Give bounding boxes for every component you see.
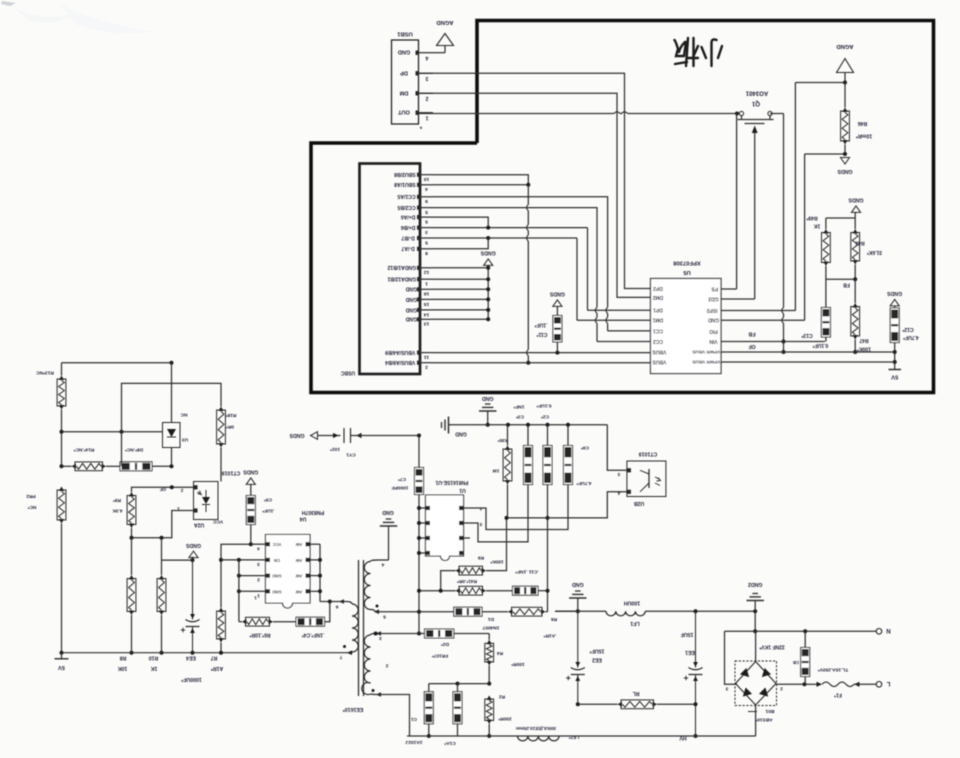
svg-text:4: 4 xyxy=(425,54,428,60)
svg-text:EE1: EE1 xyxy=(685,649,695,655)
label 小板 (small board) xyxy=(675,38,723,66)
resistor R7 A1R xyxy=(218,608,223,613)
svg-text:CT1019: CT1019 xyxy=(222,470,241,476)
svg-text:GNDS: GNDS xyxy=(887,290,903,296)
wire CC1 xyxy=(433,197,608,307)
svg-text:1M: 1M xyxy=(493,468,500,474)
wire CC2 xyxy=(433,208,597,308)
svg-text:5V: 5V xyxy=(58,664,65,670)
svg-text:R18*: R18* xyxy=(226,412,237,418)
svg-text:U4: U4 xyxy=(300,516,307,522)
capacitor C7 1000PF xyxy=(418,436,420,468)
svg-text:XPF07308: XPF07308 xyxy=(673,259,701,265)
svg-text:F1*: F1* xyxy=(834,691,842,697)
svg-text:AW: AW xyxy=(296,589,303,594)
svg-text:10mR*: 10mR* xyxy=(855,133,872,139)
svg-text:D+/B6: D+/B6 xyxy=(401,224,416,230)
svg-text:EE2: EE2 xyxy=(592,657,602,663)
svg-text:AW: AW xyxy=(296,542,303,547)
svg-text:31.6K*: 31.6K* xyxy=(867,249,882,255)
resistor R10 1K xyxy=(161,538,163,575)
svg-text:8: 8 xyxy=(425,250,428,256)
svg-text:NC*: NC* xyxy=(27,504,36,510)
capacitor C1A xyxy=(457,684,459,692)
svg-text:R35*: R35* xyxy=(498,437,509,443)
svg-text:PIO: PIO xyxy=(709,328,718,334)
svg-text:VBUS: VBUS xyxy=(652,358,667,364)
svg-text:U1: U1 xyxy=(459,487,466,493)
svg-text:VPWR VBUS: VPWR VBUS xyxy=(692,360,720,365)
svg-text:9: 9 xyxy=(425,198,428,204)
svg-text:GNDS: GNDS xyxy=(480,250,496,256)
svg-text:GNDS: GNDS xyxy=(185,542,201,548)
svg-text:CC1/A5: CC1/A5 xyxy=(397,193,415,199)
bridge B01 ABS10 xyxy=(725,631,738,684)
svg-text:OF: OF xyxy=(748,343,755,349)
wire U5 ISP2 row to AGND node xyxy=(721,310,796,312)
wire upper loop xyxy=(122,383,222,466)
svg-text:13: 13 xyxy=(424,321,430,327)
svg-text:L: L xyxy=(886,680,890,686)
svg-text:FR107*: FR107* xyxy=(432,653,448,659)
svg-text:C9*: C9* xyxy=(581,445,589,451)
svg-text:OF: OF xyxy=(160,487,167,492)
svg-text:R6: R6 xyxy=(551,616,557,622)
svg-text:4.3K: 4.3K xyxy=(112,508,123,514)
svg-text:R9: R9 xyxy=(478,555,484,561)
wire DP net xyxy=(419,73,651,288)
svg-text:D-/B7: D-/B7 xyxy=(401,234,414,240)
svg-text:10: 10 xyxy=(424,176,430,182)
resistor R18 0R xyxy=(218,407,223,412)
svg-text:R48: R48 xyxy=(855,239,864,245)
svg-text:1NF*: 1NF* xyxy=(513,404,524,410)
svg-text:CC2/B5: CC2/B5 xyxy=(397,204,415,210)
svg-text:CY1: CY1 xyxy=(346,452,356,458)
svg-text:LF1: LF1 xyxy=(630,620,639,626)
svg-text:C11*: C11* xyxy=(537,331,548,337)
svg-text:C5*: C5* xyxy=(264,497,272,503)
svg-text:VBUS: VBUS xyxy=(652,348,667,354)
transformer secondary winding (pins 4,5) xyxy=(364,562,370,610)
svg-text:R49*: R49* xyxy=(806,214,817,220)
svg-text:6: 6 xyxy=(335,604,338,610)
ground GND (transformer pin4) xyxy=(388,526,390,560)
svg-text:FB: FB xyxy=(748,331,755,337)
svg-text:AGND: AGND xyxy=(836,43,853,49)
svg-text:GND: GND xyxy=(398,49,410,55)
svg-text:GND: GND xyxy=(708,317,720,323)
svg-text:VCC: VCC xyxy=(212,519,223,525)
svg-text:4.7UF*: 4.7UF* xyxy=(576,480,591,486)
svg-text:C3*: C3* xyxy=(516,414,524,420)
svg-text:VCC: VCC xyxy=(273,542,282,547)
resistor R48 31.6K xyxy=(853,229,858,234)
svg-text:R41*.0R*: R41*.0R* xyxy=(457,578,477,584)
svg-text:7: 7 xyxy=(339,654,342,660)
svg-text:200R*: 200R* xyxy=(498,716,511,722)
svg-text:GD2: GD2 xyxy=(708,295,719,301)
power 5V (frame) xyxy=(894,362,896,370)
svg-text:VPWR VBUS: VPWR VBUS xyxy=(692,350,720,355)
svg-text:0R*: 0R* xyxy=(226,424,234,430)
svg-text:GNDA12/B1: GNDA12/B1 xyxy=(387,276,416,282)
svg-text:R10: R10 xyxy=(149,655,159,661)
svg-text:PN8307H: PN8307H xyxy=(302,509,325,515)
IC U3 (NC) xyxy=(171,363,173,423)
svg-text:10K: 10K xyxy=(117,665,127,671)
svg-text:C13*: C13* xyxy=(801,332,812,338)
svg-text:R4: R4 xyxy=(497,650,503,656)
svg-text:11: 11 xyxy=(424,354,429,360)
wire U4 right rail xyxy=(310,543,320,545)
svg-text:RL: RL xyxy=(632,690,640,696)
svg-text:3: 3 xyxy=(617,471,620,477)
svg-text:14: 14 xyxy=(424,311,430,317)
connector USB1 xyxy=(392,40,419,124)
wire VPWR bus rows xyxy=(721,351,895,353)
svg-text:D-/A7: D-/A7 xyxy=(401,245,414,251)
svg-text:4.7UF*: 4.7UF* xyxy=(903,334,919,340)
svg-text:R47: R47 xyxy=(859,337,868,343)
resistor R6 10R xyxy=(242,619,247,624)
resistor R4 100R xyxy=(488,634,490,640)
svg-text:A1R*: A1R* xyxy=(210,665,223,671)
svg-text:5: 5 xyxy=(383,614,386,620)
wire L line xyxy=(776,683,805,685)
svg-text:EE1610*: EE1610* xyxy=(342,706,363,712)
wire GND bus xyxy=(488,424,608,426)
svg-text:U2A: U2A xyxy=(194,522,205,528)
wire HV bus xyxy=(407,735,756,737)
svg-text:1N4007: 1N4007 xyxy=(482,625,499,631)
svg-text:4: 4 xyxy=(381,562,384,568)
svg-text:DP2: DP2 xyxy=(653,285,663,291)
svg-text:0.1UF*: 0.1UF* xyxy=(813,342,829,348)
svg-text:4: 4 xyxy=(617,490,620,496)
svg-text:5: 5 xyxy=(425,239,428,245)
svg-text:15: 15 xyxy=(424,301,430,307)
power 5V (output bus) xyxy=(62,652,353,654)
svg-text:2: 2 xyxy=(780,686,783,692)
svg-text:CC1: CC1 xyxy=(653,327,663,333)
resistor R47 100K xyxy=(854,279,856,303)
wire top-left net xyxy=(62,362,172,364)
svg-text:N: N xyxy=(886,627,890,633)
svg-text:U3: U3 xyxy=(182,437,188,443)
svg-text:GNDS: GNDS xyxy=(837,168,853,174)
wire U4 left rail xyxy=(221,559,266,561)
svg-text:GND: GND xyxy=(482,395,494,401)
wire DM net xyxy=(419,93,651,297)
svg-text:2: 2 xyxy=(425,95,428,101)
svg-text:GND: GND xyxy=(572,581,584,587)
svg-text:AW: AW xyxy=(296,558,303,563)
svg-text:1: 1 xyxy=(425,281,428,287)
svg-text:R2: R2 xyxy=(499,694,505,700)
svg-text:2: 2 xyxy=(425,364,428,370)
svg-text:1K: 1K xyxy=(813,222,820,228)
ground AGND (USB1) xyxy=(433,52,445,54)
resistor R2 200R xyxy=(487,696,492,701)
svg-text:0.1UF*: 0.1UF* xyxy=(536,403,551,409)
svg-text:100UH: 100UH xyxy=(624,600,640,606)
svg-text:NC: NC xyxy=(180,412,187,418)
svg-text:R14*.NC*: R14*.NC* xyxy=(73,447,94,453)
transformer aux winding (pins 3,2,1) xyxy=(362,635,371,695)
svg-text:OUT: OUT xyxy=(398,109,410,115)
wire U5 PS row to OUT xyxy=(721,288,737,290)
svg-text:FB: FB xyxy=(843,281,850,287)
ground GNDS (below R46) xyxy=(841,158,850,165)
svg-text:DP1: DP1 xyxy=(653,307,663,313)
svg-text:1000UF*: 1000UF* xyxy=(180,676,201,682)
svg-text:16: 16 xyxy=(424,291,430,297)
svg-text:AO3401: AO3401 xyxy=(745,90,768,96)
svg-text:SBU2/B8: SBU2/B8 xyxy=(394,171,416,177)
svg-text:ABS10*: ABS10* xyxy=(755,717,772,723)
svg-text:5V: 5V xyxy=(891,373,898,379)
svg-text:1K: 1K xyxy=(150,665,157,671)
svg-text:3: 3 xyxy=(379,635,382,641)
svg-text:GND: GND xyxy=(405,296,417,302)
svg-text:VBUS/A4/B9: VBUS/A4/B9 xyxy=(385,349,415,355)
svg-text:2A102J: 2A102J xyxy=(405,739,422,745)
svg-text:100K*: 100K* xyxy=(490,559,503,565)
ground GND (horizontal) xyxy=(448,417,450,434)
wire N line xyxy=(725,630,877,632)
svg-text:1000PF: 1000PF xyxy=(392,485,409,491)
svg-text:.1NF*.C4*: .1NF*.C4* xyxy=(302,631,325,637)
svg-text:D8*.NC*: D8*.NC* xyxy=(125,447,143,453)
svg-text:GND: GND xyxy=(405,316,417,322)
svg-text:D+/A6: D+/A6 xyxy=(401,214,416,220)
svg-text:R8: R8 xyxy=(120,655,127,661)
svg-text:.1UF*: .1UF* xyxy=(262,508,274,514)
svg-text:Q1: Q1 xyxy=(751,100,760,106)
svg-text:VBUS/A9/B4: VBUS/A9/B4 xyxy=(385,359,415,365)
svg-text:USBC: USBC xyxy=(341,369,356,375)
svg-text:3: 3 xyxy=(425,229,428,235)
diode D1 1N4007 xyxy=(375,611,454,613)
svg-text:R9*: R9* xyxy=(113,497,121,503)
wire Q1 gate to U5 GD2 xyxy=(754,146,756,299)
wire FB node xyxy=(826,278,855,280)
svg-text:3: 3 xyxy=(425,75,428,81)
capacitor C13 0.1UF xyxy=(821,308,830,338)
svg-text:C7*: C7* xyxy=(398,476,406,482)
transformer primary winding (pins 6,7) xyxy=(330,601,346,603)
svg-text:.1UF*: .1UF* xyxy=(535,321,548,327)
svg-text:R46: R46 xyxy=(858,120,868,126)
svg-text:R7: R7 xyxy=(211,655,218,661)
svg-text:SBU1/A8: SBU1/A8 xyxy=(394,181,416,187)
resistor R46 10mR xyxy=(844,83,846,108)
wire U2A pin1 net xyxy=(132,511,194,538)
svg-text:DM2: DM2 xyxy=(653,294,664,300)
svg-text:HV: HV xyxy=(679,735,687,741)
svg-text:GNDS: GNDS xyxy=(289,432,305,438)
diode D2 FR107 xyxy=(376,633,425,635)
svg-text:22NF 1KV*: 22NF 1KV* xyxy=(759,643,784,649)
svg-text:USB1: USB1 xyxy=(396,30,412,36)
svg-text:AGND: AGND xyxy=(436,19,453,25)
svg-text:GND: GND xyxy=(455,431,467,437)
svg-text:EE4: EE4 xyxy=(186,655,196,661)
svg-text:D1: D1 xyxy=(488,616,494,622)
svg-text:C1A*: C1A* xyxy=(444,740,456,746)
wire OUT net xyxy=(419,113,615,115)
svg-text:15UF*: 15UF* xyxy=(589,648,605,654)
svg-text:U2B: U2B xyxy=(634,500,645,506)
wire D- pair xyxy=(433,237,577,239)
svg-text:1: 1 xyxy=(425,114,428,120)
resistor R6 A1R (row) xyxy=(508,609,513,614)
svg-text:C12*: C12* xyxy=(902,326,913,332)
svg-text:GNDS: GNDS xyxy=(848,197,864,203)
svg-text:100R*: 100R* xyxy=(511,661,524,667)
svg-text:ISP2: ISP2 xyxy=(706,307,717,313)
capacitor C4 1NF xyxy=(296,617,325,626)
svg-text:.C11 .1NF*: .C11 .1NF* xyxy=(515,569,539,575)
wire mid rail xyxy=(62,431,163,433)
svg-text:U5: U5 xyxy=(683,269,691,275)
wire Q1 drain to U5 VIN row xyxy=(770,113,784,115)
resistor R49 1K xyxy=(825,218,827,229)
wire U5 GND row to GNDS node xyxy=(721,319,805,321)
wire VBUS rows xyxy=(433,352,651,354)
svg-text:2: 2 xyxy=(180,487,183,493)
svg-text:12: 12 xyxy=(424,269,430,275)
svg-text:GND: GND xyxy=(382,509,394,515)
svg-text:4: 4 xyxy=(425,186,428,192)
svg-text:GNDS: GNDS xyxy=(549,291,565,297)
svg-text:2: 2 xyxy=(385,663,388,669)
svg-text:GNDS: GNDS xyxy=(243,469,259,475)
svg-text:GND: GND xyxy=(405,306,417,312)
svg-text:DP: DP xyxy=(400,69,408,75)
svg-text:GND2: GND2 xyxy=(748,581,763,587)
svg-text:TL.15A.250V*: TL.15A.250V* xyxy=(818,667,849,673)
svg-text:2: 2 xyxy=(257,577,260,583)
svg-text:LF2*: LF2* xyxy=(569,734,580,740)
svg-text:GND: GND xyxy=(272,574,281,579)
svg-text:15UF: 15UF xyxy=(681,631,694,637)
wire U2B net xyxy=(607,425,627,471)
wire U5 VIN row / net OF xyxy=(721,341,825,343)
svg-text:PR2: PR2 xyxy=(26,493,36,499)
svg-text:GNDA1/B12: GNDA1/B12 xyxy=(387,264,416,270)
module boundary frame xyxy=(311,21,934,393)
svg-text:3: 3 xyxy=(725,686,728,692)
svg-text:GND: GND xyxy=(405,286,417,292)
svg-text:C1: C1 xyxy=(411,717,417,722)
svg-text:102*: 102* xyxy=(330,446,340,452)
svg-text:C2*: C2* xyxy=(541,414,549,420)
svg-text:PN8161SE-U1: PN8161SE-U1 xyxy=(435,479,468,485)
svg-text:300UL(EE10.25mm: 300UL(EE10.25mm xyxy=(516,726,556,731)
svg-text:3: 3 xyxy=(479,521,482,527)
svg-text:CN: CN xyxy=(274,558,280,563)
wire SBU1 vertical to VBUS xyxy=(433,184,528,186)
resistor R8 10K xyxy=(131,538,133,575)
wire D+ pair xyxy=(433,217,488,228)
wire GND-GNDS link xyxy=(555,610,578,612)
svg-text:DM1: DM1 xyxy=(653,317,664,323)
svg-text:4: 4 xyxy=(257,545,260,551)
connector USBC xyxy=(360,164,421,375)
svg-text:5: 5 xyxy=(425,209,428,215)
svg-text:AW: AW xyxy=(296,574,303,579)
svg-text:.A1R*: .A1R* xyxy=(543,633,556,639)
svg-text:PS: PS xyxy=(711,285,718,291)
svg-text:DM: DM xyxy=(399,89,408,95)
svg-text:CB: CB xyxy=(793,660,799,665)
svg-text:B01: B01 xyxy=(765,708,774,714)
svg-text:VIN: VIN xyxy=(709,338,718,344)
svg-text:CC2: CC2 xyxy=(653,338,663,344)
wire SBU2 xyxy=(433,175,528,185)
svg-text:5: 5 xyxy=(425,219,428,225)
transformer EE1610 core xyxy=(358,560,360,696)
svg-text:R13*NC: R13*NC xyxy=(36,370,54,376)
svg-text:CT1019: CT1019 xyxy=(639,451,658,457)
svg-text:GND: GND xyxy=(272,589,281,594)
capacitor C1 2A102J xyxy=(429,683,458,685)
svg-text:3: 3 xyxy=(257,561,260,567)
svg-text:D2*: D2* xyxy=(441,641,449,647)
svg-text:R6*.10R*: R6*.10R* xyxy=(250,631,271,637)
svg-text:100K*: 100K* xyxy=(857,345,871,351)
